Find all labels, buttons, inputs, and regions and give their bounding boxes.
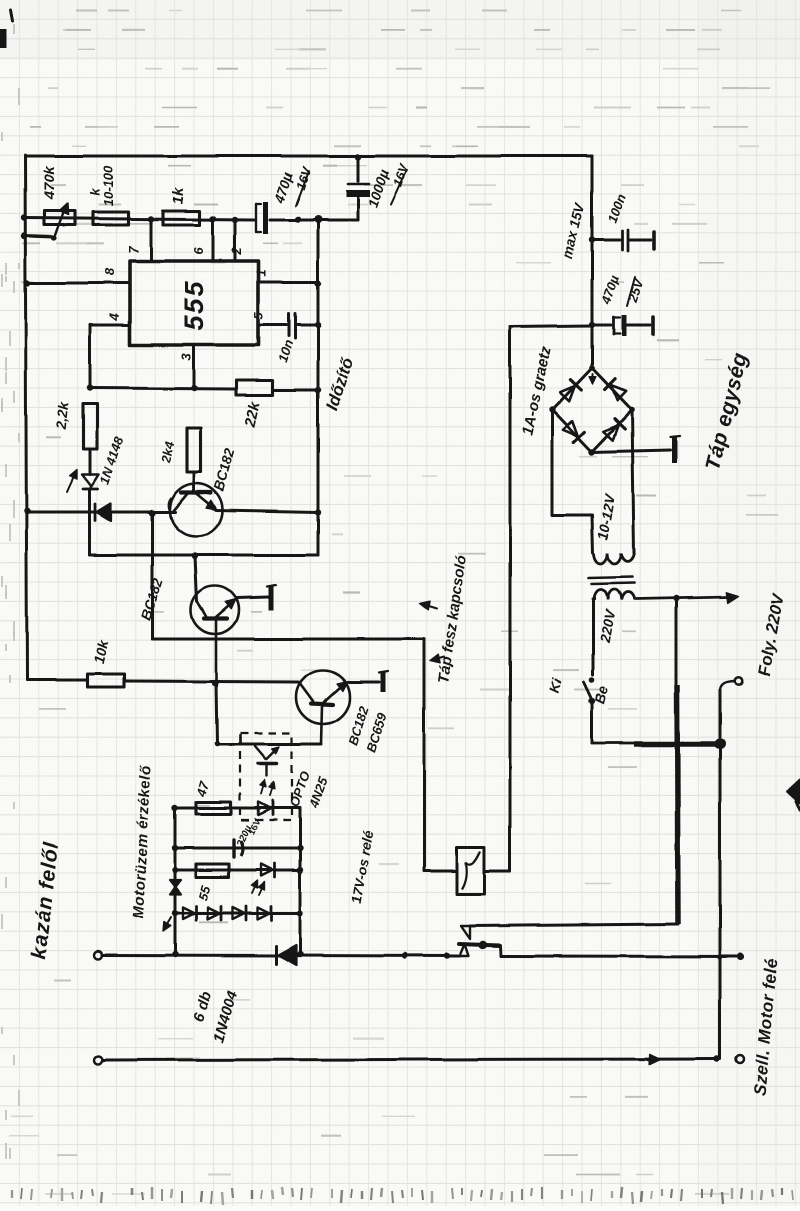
svg-text:1: 1: [253, 269, 268, 276]
wire Q2 lead down to y744: [216, 683, 217, 744]
resistor R7 10k: [88, 674, 124, 687]
label BC659 Q3: [363, 710, 390, 754]
label pin 4: [107, 313, 122, 322]
node pin6 junction: [210, 216, 216, 222]
capacitor C2 1000u/16V (from top rail): [346, 157, 370, 220]
bridge diode upper-left: [559, 380, 581, 402]
svg-text:k: k: [88, 188, 103, 196]
wire pin8 to left rail: [27, 282, 130, 285]
node row2 left: [172, 845, 178, 851]
svg-text:470k: 470k: [41, 166, 58, 201]
label 555: [179, 279, 209, 330]
wire collector row y512: [27, 510, 318, 512]
node row1 left: [172, 805, 178, 811]
diode D10 1N4004 (filled, pointing left): [276, 945, 296, 965]
node row4 right: [297, 910, 303, 916]
svg-text:4: 4: [107, 313, 122, 322]
opto light arrows: [260, 780, 275, 796]
terminal bar C6: [651, 317, 655, 334]
label Idozito: [322, 355, 357, 414]
wire relay right lead: [484, 870, 510, 873]
transistor Q1 BC182: [168, 484, 222, 537]
bridge diode lower-left: [562, 420, 584, 442]
switch S1 Ki/Be: [584, 677, 595, 704]
label 470u/25V: [598, 273, 647, 307]
potentiometer P1 470k: [44, 203, 75, 241]
node main line right: [717, 953, 744, 960]
label 2k4: [158, 439, 177, 465]
wire mains vertical x677 (bold): [676, 599, 678, 924]
label 220u/16V: [235, 817, 263, 850]
wire relay contact feed y925: [470, 924, 678, 926]
node pin7 junction: [148, 216, 154, 222]
node row3 right: [297, 867, 303, 873]
diode D4 row3 (open, pointing right): [261, 863, 275, 877]
node block bottom-left: [172, 951, 178, 957]
label pin 8: [102, 268, 117, 276]
wire mains bottom y743: [592, 743, 722, 744]
node row4 left: [172, 910, 178, 916]
wire main line lower y1060: [102, 1059, 718, 1060]
label 2,2k: [53, 400, 72, 431]
label 470u/16V: [270, 164, 314, 206]
wire switch down: [591, 702, 594, 743]
label Tap egyseg: [701, 350, 752, 473]
node row on right rail: [314, 216, 322, 224]
label pin 3: [179, 353, 194, 361]
node pin8 on left rail: [24, 280, 30, 286]
svg-text:2: 2: [229, 247, 244, 256]
capacitor C6 470u/25V: [592, 315, 650, 336]
wire pin2 lead: [234, 220, 237, 261]
node row-left on left rail: [21, 215, 27, 221]
label max 15V: [559, 200, 589, 261]
wire x720 vertical: [719, 690, 722, 1059]
label Be: [591, 684, 611, 705]
node y955 a: [402, 953, 408, 959]
svg-text:10-100: 10-100: [101, 165, 116, 206]
node row2 right: [297, 845, 303, 851]
label Tap fesz kapcsolo: [435, 554, 470, 684]
label 1N4148: [97, 434, 127, 486]
node y512 on right rail: [315, 509, 321, 515]
resistor R3 1k: [163, 211, 200, 225]
capacitor C5 100n: [592, 230, 651, 251]
wire sensing-block left rail x175: [174, 808, 177, 954]
label 1k: [170, 187, 187, 204]
label 10-100k: [88, 165, 116, 206]
wire pot wiper stub: [24, 236, 54, 237]
op-amp U1 555 timer body: [130, 261, 258, 345]
node Q2 base junction: [192, 553, 198, 559]
wire 10k row y681: [27, 680, 298, 682]
label kazan felol: [28, 840, 63, 960]
svg-text:3: 3: [179, 353, 194, 361]
label Ki: [546, 676, 565, 695]
wire Q1-left down link x152: [151, 513, 154, 639]
label 4N25: [306, 775, 331, 811]
capacitor C4 220u/16V: [234, 840, 243, 857]
label pin 5: [251, 312, 266, 320]
label 1N4004: [210, 989, 241, 1045]
label 55: [195, 883, 214, 902]
wire lower row y555: [90, 554, 318, 557]
diode D4 light arrows: [251, 880, 264, 895]
wire relay left lead: [424, 870, 457, 873]
edge mark right arrow: [787, 779, 800, 810]
svg-text:6: 6: [191, 247, 206, 255]
node Q1 left junction: [149, 510, 155, 516]
wire pin7 lead: [150, 219, 153, 261]
wire primary left down to switch: [592, 599, 595, 675]
node row3 left: [172, 867, 178, 873]
wire primary right to mains: [635, 597, 729, 599]
node Q2 collector junction: [212, 680, 218, 686]
node bridge right: [629, 407, 635, 413]
label 10-12V: [594, 492, 618, 541]
label 10k: [91, 638, 112, 665]
terminal ring main line: [94, 951, 102, 959]
node bridge top: [589, 365, 595, 371]
diode D1 1N4148 (open, pointing down): [82, 475, 99, 489]
label 6 db: [190, 990, 215, 1024]
bridge diode upper-right: [605, 379, 627, 401]
diodes D6-D9 series chain: [183, 906, 272, 920]
wire top supply rail: [25, 155, 592, 158]
wire link x424 down: [423, 639, 426, 871]
resistor R4 22k: [236, 380, 273, 395]
wire pin1 to right rail: [258, 281, 318, 284]
annotation arrow 2: [430, 655, 444, 664]
wire main line after contact: [501, 955, 741, 959]
label 1000u/16V: [365, 161, 412, 210]
node x298 junction: [295, 216, 301, 222]
label 1A-os graetz: [519, 345, 554, 437]
label BC182 Q2: [137, 576, 166, 623]
arrow terminal mains right: [726, 592, 738, 603]
relay contact (moving): [459, 926, 501, 956]
wire R6 to Q1 base: [193, 472, 196, 492]
wire pin3 output lead: [193, 345, 196, 388]
transistor Q3 BC182/BC659: [296, 670, 350, 744]
wire resistor-chain row: [24, 218, 358, 220]
wire sense row1 y808: [175, 807, 300, 810]
svg-text:2,2k: 2,2k: [53, 400, 72, 431]
label 17V-os rele: [348, 829, 377, 905]
node 22k on right rail: [315, 387, 321, 393]
wire pin5 lead: [258, 324, 286, 327]
terminal ring lower line: [94, 1056, 102, 1064]
annotation arrow at D1: [67, 470, 77, 492]
transformer T1 core: [589, 577, 634, 584]
transformer T1 primary coil: [594, 590, 634, 601]
resistor R6 2k4 (vertical): [187, 428, 201, 472]
resistor R9 55: [196, 864, 229, 877]
capacitor C1 470u/16V: [256, 202, 266, 234]
label pin 6: [191, 247, 206, 255]
wire bridge right to secondary: [632, 410, 634, 553]
optocoupler U2 4N25 dashed box: [240, 733, 292, 820]
node y744 corner: [214, 741, 220, 747]
label Szell. Motor fele: [750, 957, 781, 1096]
wire pin4 lead: [90, 325, 130, 388]
transistor Q2 BC182: [191, 586, 239, 683]
node y512 on left rail: [24, 508, 30, 514]
wire sense row4 y913: [175, 912, 300, 915]
node y955 b: [444, 953, 450, 959]
node mains junction x676: [673, 595, 679, 601]
label 470k: [41, 166, 58, 201]
node pin1 on right rail: [315, 280, 321, 286]
node block bottom-right: [297, 951, 303, 957]
wire Q2 base lead: [195, 556, 197, 601]
annotation arrow 1: [420, 601, 437, 610]
terminal ring lower right: [736, 1055, 744, 1063]
diode D5 small (on left rail, bowtie): [170, 880, 181, 894]
svg-text:555: 555: [179, 279, 209, 330]
svg-text:1k: 1k: [170, 187, 187, 204]
node pin2 junction: [232, 217, 238, 223]
svg-text:5: 5: [251, 312, 266, 320]
wire Q2 emitter to ground: [237, 597, 268, 598]
bridge diode lower-right: [603, 419, 625, 441]
ground chassis bar (bridge): [671, 436, 680, 463]
node 470u junction: [589, 322, 595, 328]
wire Q3 emitter to ground: [349, 681, 379, 684]
wire opto collector row y744: [217, 743, 321, 746]
bridge plus mark (down arrow): [589, 374, 596, 384]
edge mark top-left blob: [0, 10, 13, 48]
opto phototransistor: [255, 746, 280, 776]
resistor R5 2,2k (vertical): [83, 404, 97, 449]
node bridge left: [549, 407, 555, 413]
annotation arrow at label: [163, 917, 171, 931]
label Motoruzem erzekelo: [130, 764, 155, 918]
node pin5 on right rail: [315, 322, 321, 328]
diode D2 (filled, pointing left) on y512: [96, 504, 112, 521]
wire bridge left to secondary: [552, 410, 593, 553]
wire rectifier rail x592: [591, 156, 594, 368]
label BC182 Q1: [210, 446, 237, 493]
node mains blob: [715, 739, 726, 750]
label 100n: [605, 192, 629, 225]
wire main line from boiler y955: [102, 955, 460, 956]
transformer T1 secondary coil: [594, 553, 634, 564]
wire supply rail x510: [509, 327, 512, 871]
capacitor C3 10n: [289, 314, 319, 338]
wire sense row2 y848: [175, 847, 300, 850]
diode D3 opto LED: [258, 801, 273, 815]
label pin 1: [253, 269, 268, 276]
node wiper stub on left rail: [21, 233, 27, 239]
wire output row y388: [90, 388, 318, 390]
label 10n: [275, 338, 296, 364]
node 100n junction: [589, 237, 595, 243]
label 220V: [596, 607, 618, 645]
node pin4/output junction: [87, 385, 93, 391]
ground chassis bar (Q3): [379, 671, 388, 692]
ground chassis bar (Q2): [267, 585, 276, 610]
wire sense row3 y870: [175, 869, 300, 872]
label pin 2: [229, 247, 244, 256]
node top-rail cap junction: [355, 154, 361, 160]
label 47: [193, 779, 212, 799]
node bridge bottom: [589, 449, 595, 455]
wire bridge minus to ground: [592, 450, 671, 452]
node lower line right: [714, 1056, 720, 1062]
resistor R2 10-100k: [93, 212, 128, 225]
svg-text:7: 7: [126, 246, 141, 254]
wire link y639: [152, 638, 424, 641]
terminal hook x720: [720, 677, 743, 691]
label OPTO: [286, 770, 313, 810]
relay K1 coil: [457, 847, 484, 894]
terminal bar C5: [652, 232, 656, 249]
resistor R8 47: [196, 802, 231, 814]
wire right rail x318: [317, 219, 320, 555]
label BC182 Q3: [345, 703, 372, 747]
arrowhead on lower line: [648, 1054, 660, 1064]
wire D1 to lower node: [89, 489, 92, 555]
svg-text:8: 8: [102, 268, 117, 276]
bridge rectifier BR1 1A-os graetz (diamond): [552, 368, 632, 452]
label pin 7: [126, 246, 141, 254]
label 22k: [241, 399, 263, 429]
wire sensing-block right rail x300: [299, 808, 302, 954]
wire pin6 lead: [212, 219, 215, 261]
label Foly. 220V: [755, 591, 788, 678]
wire left vertical rail: [25, 155, 27, 680]
wire R5 to diode: [89, 449, 92, 475]
node pin3 junction: [191, 385, 197, 391]
wire link y326: [510, 326, 592, 327]
